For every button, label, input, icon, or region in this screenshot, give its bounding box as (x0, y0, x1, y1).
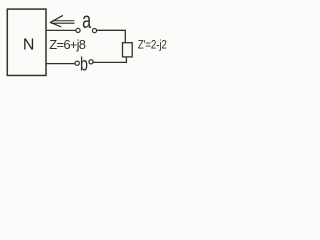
wire terminal a to load (97, 30, 126, 42)
power-flow arrow (50, 16, 74, 27)
svg-text:a: a (82, 8, 92, 33)
wire load to terminal b (93, 57, 126, 63)
terminal a (network side) (76, 28, 80, 32)
svg-text:Z=6+j8: Z=6+j8 (49, 37, 85, 52)
impedance Z' load rectangle (123, 43, 133, 57)
background (0, 0, 176, 89)
terminal b (load side) (89, 60, 93, 64)
wire box to terminal a (46, 29, 76, 31)
svg-text:N: N (23, 36, 35, 53)
network box N (7, 9, 46, 75)
terminal a (load side) (92, 29, 96, 33)
terminal b (network side) (75, 61, 79, 65)
svg-text:Z′=2-j2: Z′=2-j2 (138, 39, 167, 52)
wire terminal b to box (46, 63, 76, 65)
svg-text:b: b (80, 54, 88, 75)
